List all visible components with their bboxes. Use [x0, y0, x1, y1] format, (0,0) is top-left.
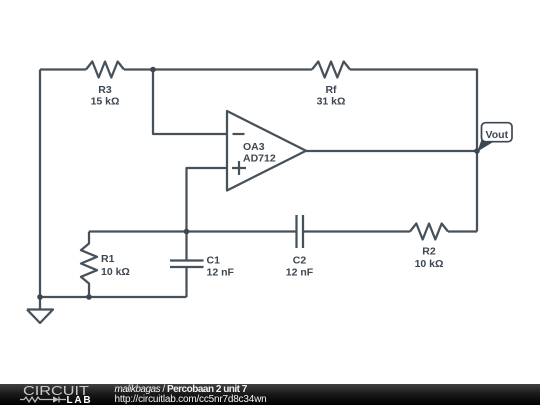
svg-text:31 kΩ: 31 kΩ	[317, 96, 346, 108]
logo diode	[59, 397, 66, 403]
wire top-left horizontal	[40, 68, 86, 70]
resistor R1	[81, 232, 97, 298]
svg-text:C2: C2	[293, 255, 307, 267]
svg-text:R2: R2	[422, 246, 436, 258]
op-amp OA3 triangle body	[227, 111, 306, 191]
wire Rf to right corner and down	[350, 70, 477, 232]
footer logo LAB	[67, 395, 93, 405]
Vout callout box	[482, 123, 513, 142]
junction node at ground	[37, 294, 43, 300]
footer bar	[0, 384, 540, 405]
junction node at C1 top	[184, 229, 190, 235]
svg-text:Vout: Vout	[486, 129, 509, 141]
wire op-amp output	[306, 150, 477, 152]
svg-text:10 kΩ: 10 kΩ	[415, 258, 444, 270]
svg-text:C1: C1	[207, 255, 221, 267]
wire left vertical	[39, 70, 41, 298]
svg-text:AD712: AD712	[243, 153, 276, 165]
wire bottom horizontal	[40, 296, 187, 298]
wire non-inverting input	[187, 168, 228, 232]
wire inverting input	[153, 70, 227, 135]
svg-text:R3: R3	[98, 84, 112, 96]
wire R2 to right vertical	[448, 230, 477, 232]
svg-text:Rf: Rf	[325, 84, 337, 96]
svg-text:12 nF: 12 nF	[207, 267, 235, 279]
svg-text:12 nF: 12 nF	[286, 267, 314, 279]
logo diode triangle	[53, 396, 59, 402]
resistor R3	[86, 62, 124, 78]
junction node at output	[474, 148, 480, 154]
Vout callout tail	[478, 140, 495, 152]
logo resistor zigzag	[20, 397, 53, 402]
svg-text:10 kΩ: 10 kΩ	[101, 266, 130, 278]
wire R3 to Rf	[124, 68, 312, 70]
ground	[27, 297, 53, 323]
svg-text:R1: R1	[101, 253, 115, 265]
resistor R2	[410, 224, 448, 240]
footer logo symbol row	[18, 394, 93, 405]
footer line 2	[115, 394, 267, 405]
capacitor C2	[297, 215, 304, 248]
op-amp minus symbol	[233, 133, 245, 135]
junction node at R3/Rf	[150, 67, 156, 73]
svg-text:OA3: OA3	[243, 141, 265, 153]
op-amp plus symbol	[232, 161, 246, 175]
wire mid horizontal left of C2	[89, 230, 296, 232]
junction node at R1 bottom	[86, 294, 92, 300]
wire C2 to R2	[303, 230, 410, 232]
svg-text:15 kΩ: 15 kΩ	[91, 96, 120, 108]
footer logo CIRCUIT	[23, 386, 89, 396]
capacitor C1	[170, 232, 204, 298]
resistor Rf	[312, 62, 350, 78]
footer line 1	[115, 384, 247, 395]
